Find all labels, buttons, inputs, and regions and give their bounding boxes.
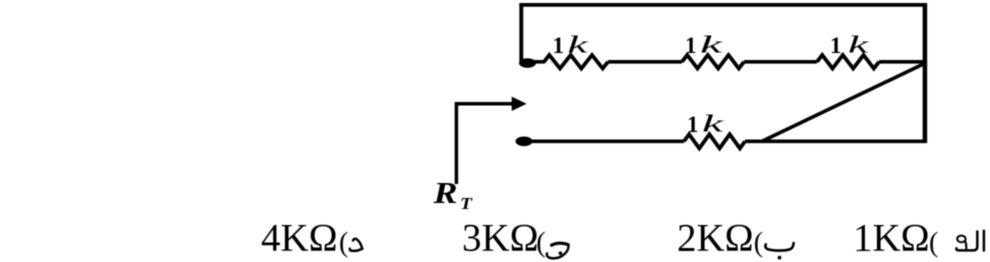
resistor R3 [817,55,879,69]
label RT [432,175,472,213]
wire diagonal from bottom branch to top-right junction [762,63,926,141]
svg-text:T: T [460,194,473,213]
wire R1 to R2 [608,60,682,64]
svg-text:k: k [568,33,589,59]
svg-text:1KΩ: 1KΩ [853,217,930,260]
resistor R1 [544,55,608,69]
feh bowl and baseline stroke [956,248,973,250]
svg-text:k: k [702,112,724,138]
feh head connector [965,241,966,250]
word alef-lam-feh [956,231,984,251]
svg-text:4KΩ: 4KΩ [261,217,338,260]
svg-text:1: 1 [685,33,697,58]
wire R2 to R3 [744,60,817,64]
option alef: 1KOhm [853,217,984,260]
svg-text:3KΩ: 3KΩ [462,217,539,260]
label R3 value 1k [830,33,869,59]
wire right vertical rail [923,3,928,143]
svg-text:(: ( [754,228,763,259]
svg-text:1: 1 [830,33,842,58]
label R2 value 1k [685,33,723,59]
alef [983,231,986,251]
letter dal [350,239,363,251]
node A top terminal dot [519,58,536,68]
wire node B to R4 [531,140,684,144]
svg-text:1: 1 [553,33,565,58]
wire R3 to right rail [879,60,925,64]
node B bottom terminal dot [516,137,533,147]
wire R4 to right rail [745,140,927,144]
wire top-left vertical [519,3,523,61]
svg-text:k: k [848,33,869,59]
resistor R2 [682,55,744,69]
label R4 value 1k [687,112,724,138]
arrow RT pointing to terminals [456,97,526,184]
svg-text:k: k [700,33,723,59]
label R1 value 1k [553,33,589,59]
option d: 4KOhm [261,217,362,260]
svg-text:1: 1 [687,112,699,137]
wire node A to R1 [534,60,545,64]
svg-text:(: ( [339,228,348,259]
feh head ring [957,236,965,243]
letter beh [765,243,793,260]
letter jeem [547,243,569,258]
svg-text:(: ( [536,228,545,259]
svg-text:2KΩ: 2KΩ [677,217,754,260]
resistor R4 [684,134,745,148]
lam [973,232,977,251]
svg-text:R: R [432,175,457,210]
option j: 3KOhm [462,217,568,260]
svg-text:(: ( [929,228,938,259]
wire top horizontal [519,3,927,7]
option b: 2KOhm [677,217,794,260]
